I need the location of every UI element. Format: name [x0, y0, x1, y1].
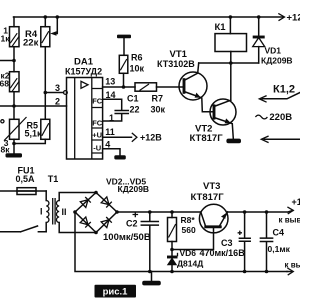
transistor VT1 KT3102V: [157, 49, 214, 112]
svg-text:II: II: [62, 207, 67, 217]
diode VD1 KD209V: [253, 17, 293, 66]
svg-text:VD1: VD1: [265, 46, 282, 56]
relay K1 coil: [215, 17, 247, 100]
svg-text:4: 4: [105, 139, 110, 149]
svg-text:22к: 22к: [23, 38, 39, 49]
svg-text:К157УД2: К157УД2: [65, 67, 102, 77]
contact K1.2 label: [273, 84, 295, 96]
diode bridge VD2...VD5 KD209V: [73, 177, 149, 235]
wire negative rail from bridge: [75, 212, 287, 273]
svg-text:К1,2: К1,2: [273, 84, 295, 96]
svg-text:КД209В: КД209В: [118, 184, 150, 194]
svg-text:+12В: +12В: [140, 133, 162, 143]
svg-text:-U: -U: [93, 144, 101, 153]
svg-text:С1: С1: [127, 94, 139, 104]
svg-text:5,1к: 5,1к: [25, 129, 43, 139]
capacitor C4 0,1mk: [260, 212, 290, 272]
svg-text:FC: FC: [92, 119, 103, 128]
svg-text:68: 68: [0, 79, 9, 89]
wire bottom output arrow: [285, 260, 320, 275]
svg-text:Т1: Т1: [48, 174, 59, 184]
wire top +12V rail: [14, 13, 310, 24]
wire pin13 net to R7: [103, 76, 135, 88]
ground DA1 pin 4: [103, 139, 126, 159]
wire 220V upper arrow with contact blade: [259, 93, 300, 103]
power bar +12V over R6: [117, 35, 131, 56]
svg-text:К1: К1: [215, 22, 227, 33]
wire positive rail y212: [117, 210, 200, 214]
svg-text:14: 14: [106, 90, 116, 100]
ground left (R3/R5 bottom): [6, 144, 23, 158]
zener VD6 D814D: [167, 248, 245, 272]
svg-text:22: 22: [130, 105, 140, 115]
svg-text:2: 2: [55, 97, 60, 107]
ground bottom rail: [142, 272, 161, 286]
svg-text:100мк/50В: 100мк/50В: [103, 232, 151, 243]
svg-text:R7: R7: [152, 94, 164, 104]
svg-text:+12В: +12В: [292, 197, 301, 207]
svg-text:Д814Д: Д814Д: [177, 259, 203, 269]
node pin labels 3 and 2: [55, 83, 60, 107]
svg-text:VT3: VT3: [203, 181, 220, 192]
resistor R3 thermistor (label cut at left edge): [1, 104, 27, 154]
svg-text:к выв. 11 DA1: к выв. 11 DA1: [279, 215, 301, 224]
svg-text:220В: 220В: [269, 112, 292, 123]
wire from R1/R2 junction to left edge: [0, 59, 16, 63]
wire pin11 +12V arrow: [103, 127, 163, 142]
resistor R5 5,1k: [14, 93, 50, 144]
wire pin3 net (R4 wiper to DA1 pin 3): [44, 91, 68, 95]
resistor R8* 560: [168, 212, 196, 250]
label ris.1: [95, 285, 137, 298]
resistor R4 22k potentiometer: [23, 17, 57, 93]
resistor R6 10k: [119, 53, 144, 87]
svg-text:R6: R6: [131, 53, 143, 63]
svg-text:R8*: R8*: [181, 215, 196, 225]
svg-text:3: 3: [55, 83, 60, 93]
svg-text:рис.1: рис.1: [103, 286, 129, 297]
svg-text:к выв. 4 DA1: к выв. 4 DA1: [285, 260, 301, 269]
op-amp DA1 K157UD2 box: [65, 57, 103, 159]
wire collector rail y63: [199, 61, 259, 65]
svg-text:10к: 10к: [130, 64, 145, 74]
svg-text:КТ817Г: КТ817Г: [191, 192, 225, 203]
svg-text:30к: 30к: [151, 105, 166, 115]
svg-text:КТ3102В: КТ3102В: [157, 59, 195, 69]
wire 220V lower arrow: [261, 136, 300, 143]
wire pin2 net to left edge: [0, 105, 67, 107]
svg-text:0,1мк: 0,1мк: [268, 244, 291, 254]
transistor VT3 KT817G: [172, 181, 228, 250]
resistor R7 30k: [135, 83, 166, 115]
svg-text:С4: С4: [273, 228, 285, 238]
svg-text:8к: 8к: [1, 144, 11, 154]
svg-text:+U: +U: [92, 131, 102, 140]
resistor R2 (label cut at left edge): [0, 61, 19, 107]
svg-text:КД209В: КД209В: [261, 56, 293, 66]
svg-text:11: 11: [105, 127, 115, 137]
wire R7 to VT1 base: [157, 86, 184, 88]
label ~220V: [255, 112, 292, 123]
svg-text:13: 13: [105, 76, 115, 86]
svg-text:+12В: +12В: [287, 13, 301, 24]
svg-text:560: 560: [182, 225, 196, 235]
ground VT2 emitter: [226, 139, 241, 144]
svg-text:FC: FC: [92, 97, 103, 106]
svg-text:КТ817Г: КТ817Г: [190, 133, 224, 144]
svg-text:1к: 1к: [1, 34, 11, 44]
fuse FU1 0,5A: [0, 166, 46, 195]
svg-text:0,5А: 0,5А: [16, 174, 36, 184]
svg-text:I: I: [40, 207, 43, 217]
svg-text:С2: С2: [126, 219, 138, 229]
wire output rail right: [228, 197, 320, 225]
capacitor C2 100mk/50V: [103, 212, 158, 272]
capacitor C3 470mk/16V: [221, 212, 250, 272]
resistor R1 (label cut at left edge): [1, 17, 20, 61]
transistor VT2 KT817G: [190, 99, 237, 144]
switch in primary circuit: [0, 226, 46, 232]
svg-text:1: 1: [109, 113, 114, 123]
node top rail junction dots: [44, 15, 261, 19]
capacitor C1 22 (between pins 14 and 1): [103, 90, 140, 123]
svg-text:С3: С3: [221, 238, 233, 248]
transformer T1: [39, 174, 97, 233]
